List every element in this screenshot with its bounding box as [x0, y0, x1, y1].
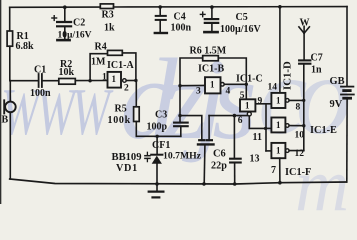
svg-text:3: 3: [196, 87, 201, 97]
svg-text:10.7MHz: 10.7MHz: [163, 150, 202, 161]
resistor R6: [203, 56, 219, 61]
wire R5 bottom: [135, 122, 137, 137]
svg-text:C1: C1: [34, 65, 46, 76]
node C5 top: [210, 5, 214, 9]
wire C1 to R2: [43, 80, 59, 82]
svg-text:IC1-D: IC1-D: [282, 61, 294, 90]
IC1-A output bubble: [123, 79, 127, 83]
svg-text:R6 1.5M: R6 1.5M: [190, 46, 227, 57]
wire IC1-C out down: [249, 116, 266, 128]
wire to R5: [135, 81, 137, 107]
capacitor C3: [174, 122, 188, 124]
op-amp U6 IC1-F inverter box: [271, 143, 285, 158]
watermark dzjs: [120, 42, 243, 157]
svg-text:100p: 100p: [147, 122, 168, 133]
watermark com: [258, 40, 340, 152]
IC1-D output bubble: [286, 99, 290, 103]
node input column: [264, 127, 267, 130]
op-amp U1 IC1-A inverter box: [108, 72, 122, 88]
wire input column: [265, 104, 267, 151]
wire VD1 bottom: [156, 164, 158, 184]
svg-text:9: 9: [258, 97, 263, 107]
svg-text:10k: 10k: [59, 67, 75, 78]
svg-text:4: 4: [226, 87, 231, 97]
svg-text:R3: R3: [102, 10, 114, 21]
op-amp U3 IC1-C inverter box: [240, 99, 255, 111]
wire input row: [10, 80, 38, 82]
node out10: [302, 124, 305, 127]
node CF1 left: [178, 114, 181, 117]
IC1-F output bubble: [286, 149, 290, 153]
svg-text:C7: C7: [311, 53, 323, 64]
node pin7 ground: [278, 181, 282, 185]
svg-text:100k: 100k: [108, 115, 131, 126]
wire top rail left: [10, 6, 101, 8]
wire out8: [289, 99, 304, 101]
microphone B: [5, 102, 16, 113]
node R4 left: [88, 79, 91, 82]
svg-text:7: 7: [271, 165, 276, 176]
svg-text:10µ/16V: 10µ/16V: [58, 31, 92, 41]
wire CF1 ground: [203, 146, 206, 185]
capacitor C1: [38, 74, 40, 87]
wire E input: [266, 127, 271, 129]
IC1-C output bubble: [247, 112, 251, 116]
wire R4 left leg: [90, 54, 107, 81]
node C6 top: [233, 114, 237, 118]
svg-text:1: 1: [210, 80, 215, 90]
svg-text:C4: C4: [174, 12, 186, 23]
capacitor C6: [230, 158, 241, 160]
wire C3 column: [179, 86, 181, 122]
wire R6 right leg: [218, 58, 246, 99]
svg-text:1: 1: [276, 96, 281, 106]
wire out12: [289, 150, 304, 152]
op-amp U5 IC1-E inverter box: [271, 118, 285, 133]
wire C6 bottom: [234, 164, 236, 184]
wire IC1-A out: [126, 80, 136, 82]
wire audio node row: [136, 135, 181, 137]
svg-text:1M: 1M: [91, 57, 106, 68]
capacitor C5: [211, 7, 213, 18]
op-amp U4 IC1-D inverter box: [271, 93, 285, 108]
svg-text:22p: 22p: [211, 161, 227, 172]
wire VD1 top: [156, 136, 158, 154]
svg-text:IC1-B: IC1-B: [198, 64, 224, 75]
ceramic filter CF1: [199, 139, 204, 141]
wire antenna column: [303, 65, 305, 151]
svg-text:13: 13: [250, 153, 260, 164]
node pin3: [178, 84, 181, 87]
wire C3 bottom: [180, 127, 182, 136]
wire R6 left leg: [180, 58, 203, 86]
antenna W: [299, 27, 304, 33]
node VD1 ground: [155, 182, 159, 186]
svg-text:9V: 9V: [330, 99, 343, 110]
node pin14 top: [278, 5, 282, 9]
node IC1-A out: [134, 79, 137, 82]
node C6 ground: [233, 182, 237, 186]
wire CF1 right pin: [209, 115, 247, 117]
wire R1 bottom: [9, 46, 11, 80]
svg-text:10: 10: [295, 131, 305, 141]
svg-text:6: 6: [238, 116, 243, 126]
svg-text:W: W: [300, 18, 310, 29]
svg-text:IC1-F: IC1-F: [285, 167, 311, 178]
varactor VD1: [151, 154, 162, 156]
svg-text:IC1-E: IC1-E: [310, 125, 337, 136]
watermark www: [1, 79, 107, 146]
resistor R5: [134, 107, 140, 122]
svg-text:8: 8: [296, 103, 301, 113]
wire pin 7: [279, 158, 281, 183]
node CF1 ground: [202, 182, 206, 186]
svg-text:C3: C3: [155, 110, 167, 121]
wire right rail bottom: [346, 100, 348, 182]
svg-text:1: 1: [112, 74, 117, 84]
node C2 top: [63, 5, 67, 9]
resistor R2: [59, 79, 76, 85]
svg-text:100µ/16V: 100µ/16V: [220, 24, 262, 35]
svg-text:1n: 1n: [311, 65, 322, 76]
svg-text:14: 14: [268, 83, 278, 93]
battery GB: [341, 86, 353, 88]
wire IC1-B out: [224, 83, 246, 85]
svg-text:1: 1: [102, 73, 107, 83]
wire F input: [266, 150, 271, 152]
node VD1 top: [156, 135, 159, 138]
capacitor C7: [299, 59, 310, 61]
svg-text:5: 5: [240, 91, 245, 101]
wire bottom rail: [10, 179, 347, 184]
svg-text:12: 12: [295, 149, 305, 159]
wire R4 right leg: [122, 53, 136, 81]
wire C6: [233, 116, 235, 158]
capacitor C4: [159, 7, 161, 15]
wire IC1-C right pin9: [255, 103, 271, 105]
svg-text:C5: C5: [236, 12, 248, 23]
node C4 top: [158, 5, 162, 9]
node R6 pin4: [245, 83, 248, 86]
wire top rail right: [114, 6, 348, 8]
wire pin3: [180, 84, 205, 86]
svg-text:1: 1: [276, 120, 281, 130]
svg-text:BB109: BB109: [112, 152, 142, 163]
svg-text:IC1-A: IC1-A: [107, 60, 134, 71]
IC1-B output bubble: [221, 83, 225, 87]
svg-text:11: 11: [253, 132, 262, 143]
svg-text:VD1: VD1: [116, 163, 138, 174]
svg-text:R4: R4: [95, 42, 107, 53]
svg-text:1k: 1k: [104, 23, 115, 34]
wire left rail: [9, 7, 11, 31]
resistor R1: [7, 31, 13, 46]
svg-text:IC1-C: IC1-C: [236, 74, 263, 85]
scan edge line left: [0, 0, 2, 204]
svg-text:1: 1: [276, 146, 281, 156]
wire mic top: [9, 81, 11, 102]
wire out10: [289, 125, 304, 127]
svg-text:GB: GB: [330, 76, 345, 87]
svg-text:2: 2: [124, 84, 129, 94]
wire CF1 left pin: [180, 116, 202, 140]
capacitor C2: [64, 7, 66, 21]
wire pin 14: [279, 7, 281, 93]
resistor R4: [108, 50, 123, 55]
resistor R3: [100, 4, 113, 9]
node out8: [302, 99, 305, 102]
ground: [156, 184, 158, 191]
wire R2 to IC1-A: [75, 80, 107, 82]
svg-text:6.8k: 6.8k: [16, 41, 35, 52]
IC1-E output bubble: [286, 124, 290, 128]
svg-text:R5: R5: [115, 104, 127, 115]
svg-text:100n: 100n: [30, 88, 51, 99]
wire right rail top: [346, 7, 348, 86]
op-amp U2 IC1-B inverter box: [205, 77, 221, 93]
svg-text:C6: C6: [213, 148, 226, 159]
svg-text:B: B: [2, 115, 9, 126]
svg-text:100n: 100n: [171, 23, 192, 34]
svg-text:C2: C2: [73, 18, 85, 29]
wire mic bottom: [9, 112, 11, 179]
svg-text:1: 1: [245, 101, 250, 111]
